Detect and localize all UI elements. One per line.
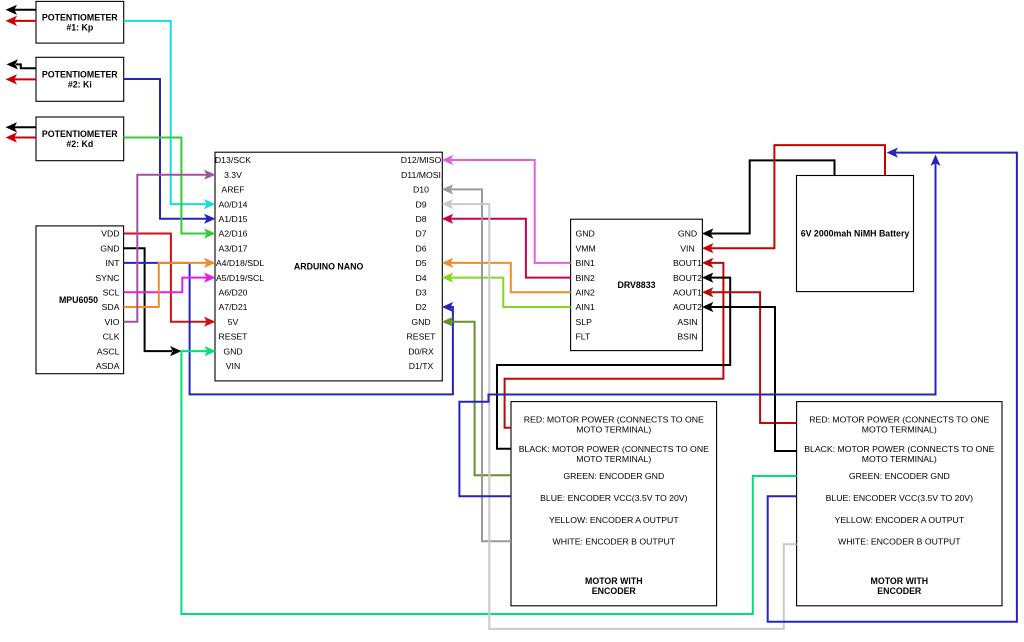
svg-text:D7: D7 <box>415 229 426 239</box>
svg-text:GND: GND <box>411 317 430 327</box>
svg-text:VIN: VIN <box>226 361 240 371</box>
svg-text:D3: D3 <box>415 288 426 298</box>
svg-text:D9: D9 <box>415 199 426 209</box>
svg-text:AOUT2: AOUT2 <box>673 302 702 312</box>
svg-text:AIN2: AIN2 <box>576 288 595 298</box>
svg-text:#2: Kd: #2: Kd <box>66 139 93 149</box>
svg-text:D13/SCK: D13/SCK <box>215 155 251 165</box>
svg-text:POTENTIOMETER: POTENTIOMETER <box>42 129 118 139</box>
svg-text:SLP: SLP <box>576 317 593 327</box>
svg-text:#2: Ki: #2: Ki <box>68 80 92 90</box>
svg-text:#1: Kp: #1: Kp <box>66 22 94 32</box>
svg-text:BLACK: MOTOR POWER (CONNECTS T: BLACK: MOTOR POWER (CONNECTS TO ONE <box>519 444 709 454</box>
svg-text:BSIN: BSIN <box>677 332 697 342</box>
svg-text:RED: MOTOR POWER (CONNECTS TO: RED: MOTOR POWER (CONNECTS TO ONE <box>524 415 704 425</box>
svg-text:MOTOR WITH: MOTOR WITH <box>585 576 643 586</box>
svg-text:RESET: RESET <box>407 332 437 342</box>
svg-text:ARDUINO NANO: ARDUINO NANO <box>294 262 364 272</box>
svg-text:GND: GND <box>576 229 595 239</box>
svg-text:SDA: SDA <box>102 302 120 312</box>
svg-text:RED: MOTOR POWER (CONNECTS TO: RED: MOTOR POWER (CONNECTS TO ONE <box>809 415 989 425</box>
svg-text:ASCL: ASCL <box>97 346 120 356</box>
svg-text:5V: 5V <box>228 317 239 327</box>
svg-text:POTENTIOMETER: POTENTIOMETER <box>42 70 118 80</box>
svg-text:ENCODER: ENCODER <box>877 586 922 596</box>
svg-text:INT: INT <box>106 258 121 268</box>
svg-text:SCL: SCL <box>103 288 120 298</box>
svg-text:YELLOW: ENCODER A OUTPUT: YELLOW: ENCODER A OUTPUT <box>834 515 964 525</box>
svg-text:BOUT1: BOUT1 <box>673 258 702 268</box>
svg-text:VIN: VIN <box>680 243 694 253</box>
svg-text:BIN2: BIN2 <box>576 273 595 283</box>
svg-text:AOUT1: AOUT1 <box>673 288 702 298</box>
svg-text:D6: D6 <box>415 243 426 253</box>
svg-text:MOTOR WITH: MOTOR WITH <box>871 576 929 586</box>
svg-text:AREF: AREF <box>221 185 244 195</box>
svg-text:VMM: VMM <box>576 243 596 253</box>
svg-text:POTENTIOMETER: POTENTIOMETER <box>42 13 118 23</box>
svg-text:GREEN: ENCODER GND: GREEN: ENCODER GND <box>849 471 950 481</box>
svg-text:A6/D20: A6/D20 <box>219 288 248 298</box>
svg-text:BLUE: ENCODER VCC(3.5V TO 20V): BLUE: ENCODER VCC(3.5V TO 20V) <box>540 493 688 503</box>
svg-text:A4/D18/SDL: A4/D18/SDL <box>216 258 264 268</box>
svg-text:D2: D2 <box>415 302 426 312</box>
svg-text:ENCODER: ENCODER <box>592 586 637 596</box>
svg-text:WHITE: ENCODER B OUTPUT: WHITE: ENCODER B OUTPUT <box>553 537 676 547</box>
svg-text:D12/MISO: D12/MISO <box>401 155 442 165</box>
svg-text:SYNC: SYNC <box>95 273 119 283</box>
svg-text:MOTO TERMINAL): MOTO TERMINAL) <box>862 454 937 464</box>
svg-text:GND: GND <box>678 229 697 239</box>
svg-text:FLT: FLT <box>576 332 591 342</box>
svg-text:BIN1: BIN1 <box>576 258 595 268</box>
svg-text:ASDA: ASDA <box>96 361 120 371</box>
svg-text:GND: GND <box>223 346 242 356</box>
svg-text:D0/RX: D0/RX <box>408 346 434 356</box>
svg-text:GREEN: ENCODER GND: GREEN: ENCODER GND <box>563 471 664 481</box>
svg-text:A3/D17: A3/D17 <box>219 243 248 253</box>
svg-text:A2/D16: A2/D16 <box>219 229 248 239</box>
svg-text:ASIN: ASIN <box>677 317 697 327</box>
svg-text:DRV8833: DRV8833 <box>618 280 656 290</box>
svg-text:MPU6050: MPU6050 <box>59 295 98 305</box>
svg-text:VIO: VIO <box>105 317 120 327</box>
svg-text:D10: D10 <box>413 185 429 195</box>
svg-text:BLUE: ENCODER VCC(3.5V TO 20V): BLUE: ENCODER VCC(3.5V TO 20V) <box>826 493 974 503</box>
svg-text:A0/D14: A0/D14 <box>219 199 248 209</box>
svg-text:D1/TX: D1/TX <box>409 361 434 371</box>
svg-text:VDD: VDD <box>101 229 119 239</box>
svg-text:A1/D15: A1/D15 <box>219 214 248 224</box>
svg-text:CLK: CLK <box>103 332 120 342</box>
svg-text:WHITE: ENCODER B OUTPUT: WHITE: ENCODER B OUTPUT <box>838 537 961 547</box>
svg-text:3.3V: 3.3V <box>224 170 242 180</box>
svg-text:BOUT2: BOUT2 <box>673 273 702 283</box>
svg-text:MOTO TERMINAL): MOTO TERMINAL) <box>862 425 937 435</box>
svg-text:YELLOW: ENCODER A OUTPUT: YELLOW: ENCODER A OUTPUT <box>549 515 679 525</box>
svg-text:D4: D4 <box>415 273 426 283</box>
svg-text:D11/MOSI: D11/MOSI <box>401 170 441 180</box>
svg-text:AIN1: AIN1 <box>576 302 595 312</box>
svg-text:MOTO TERMINAL): MOTO TERMINAL) <box>576 425 651 435</box>
svg-text:GND: GND <box>100 243 119 253</box>
svg-text:D5: D5 <box>415 258 426 268</box>
svg-text:A7/D21: A7/D21 <box>219 302 248 312</box>
svg-text:A5/D19/SCL: A5/D19/SCL <box>216 273 264 283</box>
svg-text:BLACK: MOTOR POWER (CONNECTS T: BLACK: MOTOR POWER (CONNECTS TO ONE <box>804 444 994 454</box>
svg-text:MOTO TERMINAL): MOTO TERMINAL) <box>576 454 651 464</box>
svg-text:D8: D8 <box>415 214 426 224</box>
svg-text:RESET: RESET <box>219 332 249 342</box>
svg-text:6V 2000mah NiMH Battery: 6V 2000mah NiMH Battery <box>801 229 910 239</box>
